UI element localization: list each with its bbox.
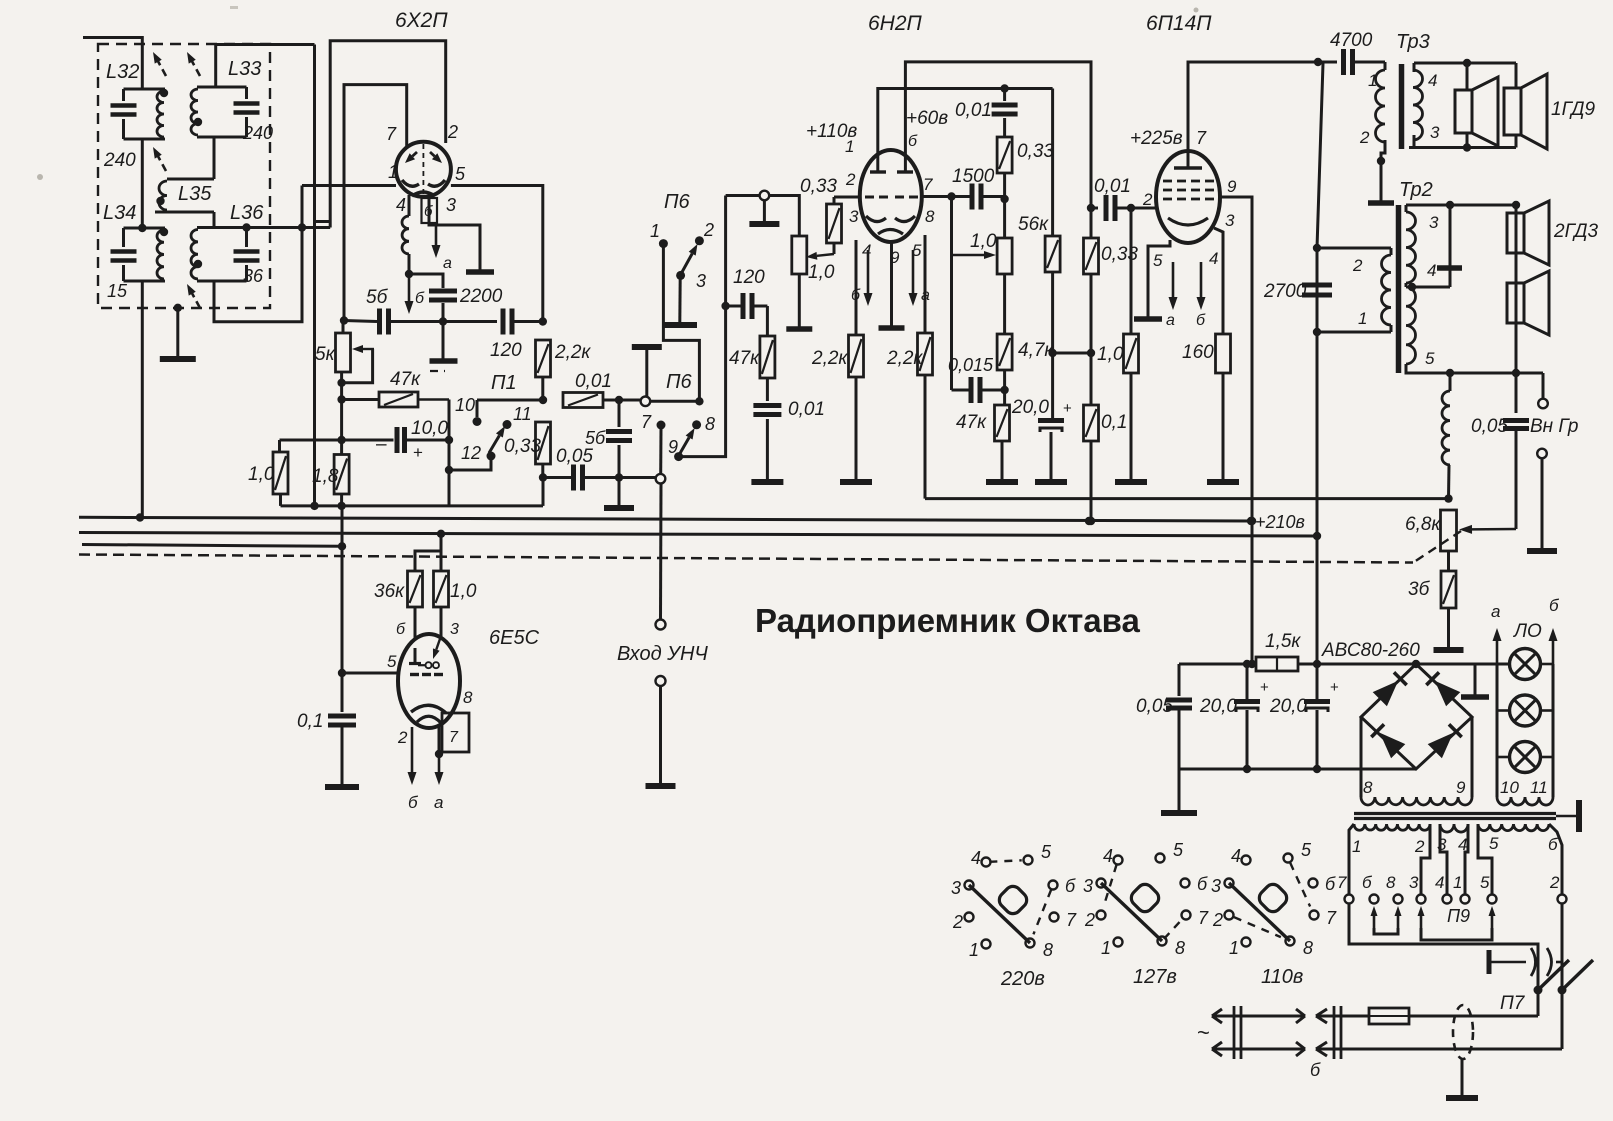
svg-text:б: б bbox=[396, 621, 406, 638]
trimmer arrow L32 bbox=[162, 69, 166, 76]
svg-text:1ГД9: 1ГД9 bbox=[1551, 99, 1595, 120]
wire P6-1 to node bbox=[663, 246, 699, 401]
resistor 1,0 (AVC) bbox=[278, 440, 281, 452]
svg-text:1,0: 1,0 bbox=[1097, 344, 1124, 365]
svg-text:0,015: 0,015 bbox=[948, 355, 994, 375]
wire circle to pot 1,0 bbox=[769, 196, 799, 237]
inductor L36 bbox=[197, 226, 247, 229]
svg-text:8: 8 bbox=[925, 207, 935, 226]
svg-text:2700: 2700 bbox=[1263, 281, 1307, 302]
svg-text:120: 120 bbox=[733, 267, 765, 288]
wire antenna rail down (left vert) bbox=[313, 45, 316, 506]
svg-text:б: б bbox=[1197, 874, 1208, 894]
wire 0,1 column bbox=[341, 506, 344, 712]
svg-text:6Х2П: 6Х2П bbox=[395, 9, 448, 32]
svg-text:3: 3 bbox=[1429, 213, 1439, 232]
svg-text:9: 9 bbox=[668, 437, 678, 457]
svg-text:б: б bbox=[1325, 874, 1336, 894]
svg-text:0,05: 0,05 bbox=[1136, 696, 1173, 717]
svg-text:L35: L35 bbox=[178, 183, 212, 205]
terminal circles bbox=[1345, 895, 1354, 904]
svg-text:11: 11 bbox=[1530, 778, 1548, 797]
svg-text:б: б bbox=[1548, 835, 1559, 854]
svg-text:9: 9 bbox=[1456, 778, 1466, 797]
svg-text:0,05: 0,05 bbox=[556, 446, 593, 467]
wire screen column to PSU bbox=[1316, 536, 1319, 664]
svg-text:7: 7 bbox=[641, 412, 652, 432]
bus heater C bbox=[82, 545, 342, 547]
svg-text:8: 8 bbox=[1386, 873, 1396, 892]
svg-text:2200: 2200 bbox=[459, 286, 503, 307]
svg-text:4: 4 bbox=[396, 195, 406, 215]
svg-text:12: 12 bbox=[461, 443, 481, 463]
jog to 36k and 1,0 bbox=[440, 534, 443, 571]
capacitor 5b (detector) bbox=[344, 321, 377, 322]
svg-text:5: 5 bbox=[1425, 349, 1435, 368]
potentiometer 5k bbox=[342, 321, 345, 334]
wire 6P14P pin3 cathode bbox=[1214, 228, 1223, 334]
svg-text:15: 15 bbox=[107, 281, 128, 301]
svg-text:7: 7 bbox=[1196, 128, 1207, 148]
heater arrow b at 6X2P bbox=[408, 276, 411, 301]
selector 220v bbox=[982, 858, 991, 867]
switch P6 contact 2 bbox=[695, 236, 704, 245]
svg-text:3: 3 bbox=[951, 878, 961, 898]
svg-text:П6: П6 bbox=[666, 371, 692, 393]
svg-text:б: б bbox=[415, 290, 425, 307]
svg-text:3: 3 bbox=[849, 207, 859, 226]
capacitor 120 (volume) bbox=[726, 305, 741, 308]
tap wires bbox=[1349, 824, 1354, 894]
wire bottom AVC rail bbox=[281, 504, 544, 507]
tube V4 internals bbox=[414, 648, 417, 663]
capacitor 20,0 second bbox=[1316, 664, 1319, 699]
wire top-left antenna rail bbox=[83, 38, 142, 90]
svg-text:36к: 36к bbox=[374, 581, 405, 602]
svg-text:0,01: 0,01 bbox=[788, 399, 825, 420]
mains fuse bbox=[1369, 1008, 1409, 1024]
input terminal lower bbox=[656, 676, 666, 686]
svg-text:П1: П1 bbox=[491, 372, 517, 394]
svg-text:220в: 220в bbox=[1000, 968, 1045, 990]
resistor 47k (NFB) bbox=[995, 405, 1010, 441]
tube V3 internals bbox=[1187, 152, 1190, 168]
svg-text:120: 120 bbox=[490, 340, 522, 361]
svg-text:10,0: 10,0 bbox=[411, 418, 448, 439]
speaker 2GD3 second bbox=[1507, 283, 1524, 323]
transformer Tr2 secondary lower bbox=[1406, 287, 1416, 364]
svg-text:5: 5 bbox=[387, 652, 397, 671]
svg-text:1: 1 bbox=[1368, 71, 1377, 90]
capacitor 20,0 first bbox=[1246, 664, 1249, 699]
svg-text:47к: 47к bbox=[729, 348, 760, 369]
svg-text:2: 2 bbox=[1084, 910, 1095, 930]
resistor 1,5k fuse bbox=[1179, 663, 1256, 666]
svg-text:+210в: +210в bbox=[1255, 512, 1305, 532]
svg-text:0,33: 0,33 bbox=[1101, 244, 1138, 265]
svg-text:5б: 5б bbox=[585, 428, 606, 448]
wire 6N2P pin4 cathode bbox=[855, 240, 858, 335]
wire 6X2P pin1 from AGC node bbox=[302, 184, 396, 187]
svg-text:8: 8 bbox=[1303, 938, 1313, 958]
wire 6P14P pin5 to bar bbox=[1148, 240, 1170, 318]
potentiometer 1,0 (volume) bbox=[792, 236, 807, 274]
resistor 36k bbox=[408, 571, 423, 607]
svg-text:1,5к: 1,5к bbox=[1265, 631, 1301, 652]
transformer core bbox=[1354, 812, 1556, 815]
svg-text:3: 3 bbox=[1409, 873, 1419, 892]
paper speck bbox=[37, 174, 43, 180]
svg-text:1: 1 bbox=[1453, 873, 1462, 892]
wire 5k column down bbox=[340, 372, 343, 455]
inductor L32 bbox=[124, 88, 166, 91]
node column 6X2P right bbox=[541, 377, 544, 400]
inductor L34 bbox=[124, 227, 166, 230]
svg-text:a: a bbox=[1491, 602, 1500, 621]
switch P6 contact 1 bbox=[659, 239, 668, 248]
svg-text:3: 3 bbox=[1083, 876, 1093, 896]
svg-text:Радиоприемник Октава: Радиоприемник Октава bbox=[755, 602, 1140, 639]
svg-text:47к: 47к bbox=[956, 412, 987, 433]
wire P6 node bbox=[650, 400, 699, 403]
connector circle (volume) bbox=[760, 191, 770, 201]
svg-text:8: 8 bbox=[1175, 938, 1185, 958]
selector 127v bbox=[1114, 856, 1123, 865]
wire 6P14P pin7 rail bbox=[1188, 62, 1318, 152]
heater arrows 6E5C bbox=[411, 727, 414, 772]
trimmer arrow L36 bbox=[196, 301, 200, 308]
wire P6-7 to input node bbox=[659, 429, 662, 474]
svg-text:6П14П: 6П14П bbox=[1146, 12, 1212, 35]
capacitor 0,05 (PSU) bbox=[1178, 664, 1181, 696]
svg-text:2: 2 bbox=[1212, 910, 1223, 930]
svg-text:a: a bbox=[434, 793, 443, 812]
svg-text:6,8к: 6,8к bbox=[1405, 514, 1441, 535]
svg-text:2: 2 bbox=[1142, 190, 1153, 209]
svg-text:–: – bbox=[376, 434, 387, 455]
selector 110v bbox=[1242, 856, 1251, 865]
switch P1 contact 10 bbox=[476, 400, 479, 417]
ground below 2200 bbox=[442, 322, 445, 361]
svg-text:Вн Гр: Вн Гр bbox=[1530, 416, 1578, 437]
wire 6N2P grid2 line bbox=[921, 195, 952, 198]
svg-text:+: + bbox=[1063, 400, 1072, 417]
svg-text:0,1: 0,1 bbox=[297, 711, 323, 732]
svg-text:6Е5С: 6Е5С bbox=[489, 627, 540, 649]
capacitor 0,1 bbox=[328, 714, 356, 719]
svg-text:+225в: +225в bbox=[1130, 128, 1183, 149]
svg-text:a: a bbox=[443, 255, 452, 272]
tube V1 6X2P bbox=[396, 142, 451, 197]
resistor 1,8 bbox=[334, 455, 349, 495]
svg-text:б: б bbox=[908, 133, 918, 150]
capacitor 2700 bbox=[1302, 283, 1332, 288]
svg-text:7: 7 bbox=[1066, 910, 1077, 930]
svg-text:Вход УНЧ: Вход УНЧ bbox=[617, 643, 708, 665]
svg-text:2: 2 bbox=[703, 220, 714, 240]
svg-text:+: + bbox=[1330, 679, 1339, 696]
switch P1 contact 12 bbox=[487, 452, 496, 461]
hum coil bbox=[1449, 373, 1452, 391]
transformer Tr2 secondary upper bbox=[1405, 205, 1408, 212]
bus +210v bbox=[79, 517, 1251, 521]
wire L34 bottom down to bus bbox=[141, 281, 144, 517]
svg-text:2,2к: 2,2к bbox=[554, 342, 591, 363]
switch P6 contact 9 bbox=[674, 452, 683, 461]
svg-text:4: 4 bbox=[1428, 71, 1437, 90]
chassis stub above P6-7 bbox=[632, 344, 662, 350]
svg-text:8: 8 bbox=[1363, 778, 1373, 797]
wire P6-9 riser bbox=[679, 196, 726, 457]
wire PSU bottom bbox=[1179, 768, 1416, 771]
transformer Tr2 primary bbox=[1318, 247, 1391, 250]
wire L36 top to detector bbox=[247, 226, 331, 229]
switch P1 lever bbox=[489, 435, 499, 453]
svg-text:L36: L36 bbox=[230, 202, 264, 224]
wire P1-10 to node bbox=[477, 399, 543, 402]
transformer HV winding box bbox=[1360, 717, 1363, 797]
inductor L33 bbox=[197, 86, 247, 89]
wire rail to 6X2P pin2 column bbox=[216, 45, 315, 88]
svg-text:2: 2 bbox=[1414, 837, 1425, 856]
wire Tr3 secondary bottom bbox=[1409, 146, 1516, 149]
svg-text:П6: П6 bbox=[664, 191, 690, 213]
svg-text:7: 7 bbox=[1337, 873, 1347, 892]
svg-text:1,8: 1,8 bbox=[312, 466, 339, 487]
resistor 160 bbox=[1216, 334, 1231, 373]
chassis stub below circle bbox=[763, 200, 766, 222]
switch P6 contact 8 bbox=[692, 420, 701, 429]
svg-text:2: 2 bbox=[845, 170, 856, 189]
capacitor 0,01 (to 6P14P grid) bbox=[1091, 207, 1098, 210]
capacitor 4700 bbox=[1318, 61, 1337, 64]
svg-text:8: 8 bbox=[463, 688, 473, 707]
svg-text:1: 1 bbox=[1358, 309, 1367, 328]
resistor 6,8k bbox=[1441, 510, 1457, 551]
wire 6X2P pin6 to ground bbox=[429, 196, 480, 271]
wire Tr3 secondary top bbox=[1414, 62, 1516, 65]
svg-text:7: 7 bbox=[449, 729, 459, 746]
svg-text:36: 36 bbox=[243, 266, 264, 286]
wire Tr2 secondary top bbox=[1406, 204, 1516, 207]
transformer lamp winding box bbox=[1496, 664, 1499, 797]
resistor 2,2k (second triode) bbox=[924, 235, 927, 333]
svg-text:3: 3 bbox=[450, 621, 459, 638]
transformer primary winding left bbox=[1354, 824, 1430, 830]
svg-text:5: 5 bbox=[1173, 840, 1184, 860]
svg-text:4,7к: 4,7к bbox=[1018, 340, 1054, 361]
resistor 3b bbox=[1447, 551, 1450, 571]
svg-text:5: 5 bbox=[1301, 840, 1312, 860]
svg-text:3: 3 bbox=[1225, 211, 1235, 230]
svg-text:47к: 47к bbox=[390, 369, 421, 390]
lamp arrows a b bbox=[1496, 641, 1499, 664]
svg-text:L34: L34 bbox=[103, 202, 136, 224]
svg-text:2: 2 bbox=[952, 912, 963, 932]
resistor 47k (grid) bbox=[766, 306, 769, 336]
tone pot wiper bbox=[950, 197, 953, 391]
switch P6 contact 7 bbox=[657, 421, 666, 430]
pin7 box 6E5C bbox=[442, 713, 469, 752]
input node circle bbox=[656, 474, 666, 484]
svg-text:1: 1 bbox=[388, 162, 398, 182]
wire L32 to L34 bbox=[141, 139, 144, 228]
wire volume top line bbox=[726, 194, 760, 197]
transformer Tr2 core bbox=[1396, 205, 1402, 373]
svg-text:П7: П7 bbox=[1500, 993, 1526, 1014]
svg-text:4: 4 bbox=[1231, 846, 1241, 866]
svg-text:5: 5 bbox=[455, 164, 466, 184]
svg-text:7: 7 bbox=[1198, 908, 1209, 928]
svg-text:ЛО: ЛО bbox=[1512, 621, 1542, 642]
svg-text:2: 2 bbox=[1549, 873, 1560, 892]
heater arrow a at 6X2P bbox=[435, 226, 438, 245]
svg-text:0,01: 0,01 bbox=[575, 371, 612, 392]
capacitor 0,05 (input) bbox=[543, 476, 571, 479]
svg-text:56к: 56к bbox=[1018, 214, 1049, 235]
svg-text:1: 1 bbox=[969, 940, 979, 960]
resistor 0,33 (top) bbox=[997, 137, 1012, 173]
wire 47k to cap column bbox=[448, 400, 451, 506]
capacitor 0,05 (output) bbox=[1503, 418, 1529, 423]
svg-text:3: 3 bbox=[1430, 123, 1440, 142]
bus dashed AGC bbox=[79, 555, 1413, 563]
svg-text:8: 8 bbox=[705, 414, 715, 434]
svg-text:10: 10 bbox=[455, 395, 475, 415]
wire 6X2P pin7 riser bbox=[344, 85, 407, 321]
svg-text:+: + bbox=[1260, 679, 1269, 696]
wire Tr3 primary bottom to chassis bbox=[1381, 148, 1385, 202]
resistor 2,2k (6X2P) bbox=[536, 340, 551, 377]
svg-text:7: 7 bbox=[923, 175, 933, 194]
svg-text:4: 4 bbox=[1435, 873, 1444, 892]
switch P6 contact 3 bbox=[676, 271, 685, 280]
svg-text:0,33: 0,33 bbox=[504, 436, 541, 457]
svg-text:б: б bbox=[408, 793, 419, 812]
wire feedback line bbox=[925, 497, 1449, 500]
svg-text:20,0: 20,0 bbox=[1269, 696, 1307, 717]
heater arrows 6N2P bbox=[867, 250, 870, 293]
svg-text:0,1: 0,1 bbox=[1101, 412, 1127, 433]
mains segment left bbox=[1212, 1015, 1305, 1018]
svg-text:4700: 4700 bbox=[1330, 30, 1373, 51]
5k wiper arm bbox=[363, 348, 374, 350]
svg-text:5: 5 bbox=[1480, 873, 1490, 892]
svg-text:5б: 5б bbox=[366, 287, 389, 308]
terminal jumpers with arrows bbox=[1373, 916, 1376, 930]
svg-text:7: 7 bbox=[1326, 908, 1337, 928]
svg-text:20,0: 20,0 bbox=[1199, 696, 1237, 717]
spark capacitor at P7 bbox=[1487, 950, 1492, 974]
svg-text:б: б bbox=[1310, 1060, 1321, 1080]
wire P6-3 stub to bar bbox=[678, 277, 681, 324]
wire 6E5C grid bbox=[342, 672, 399, 675]
svg-text:0,05: 0,05 bbox=[1471, 416, 1508, 437]
svg-text:2: 2 bbox=[397, 728, 408, 747]
svg-text:1: 1 bbox=[1101, 938, 1111, 958]
wire 0,33 to pot wiper bbox=[833, 243, 836, 254]
svg-text:1: 1 bbox=[1229, 938, 1239, 958]
svg-text:+60в: +60в bbox=[906, 108, 948, 129]
svg-text:1: 1 bbox=[650, 221, 660, 241]
resistor 4,7k bbox=[1003, 274, 1006, 334]
mains plug oval bbox=[1453, 1005, 1473, 1059]
tap 4 bar bbox=[1449, 205, 1452, 287]
resistor 0,33 (P1) bbox=[536, 422, 551, 464]
capacitor 5b (to ground) bbox=[618, 400, 621, 427]
svg-text:3: 3 bbox=[1211, 876, 1221, 896]
svg-text:10: 10 bbox=[1500, 778, 1519, 797]
input terminal upper bbox=[656, 620, 666, 630]
trimmer arrow L33 bbox=[196, 69, 200, 76]
capacitor 0,01 (grid) bbox=[766, 378, 769, 401]
coil box dashed outline bbox=[98, 44, 270, 308]
capacitor 0,01 (top) bbox=[1003, 89, 1006, 102]
svg-text:2ГД3: 2ГД3 bbox=[1553, 221, 1598, 242]
transformer primary winding right bbox=[1478, 824, 1549, 831]
svg-text:110в: 110в bbox=[1261, 966, 1303, 988]
svg-text:240: 240 bbox=[242, 123, 273, 143]
transformer primary winding middle bbox=[1440, 824, 1468, 832]
svg-text:1,0: 1,0 bbox=[970, 231, 997, 252]
svg-text:5: 5 bbox=[1489, 834, 1499, 853]
wire grid line 6N2P bbox=[834, 196, 861, 199]
resistor 0,01 horizontal bbox=[563, 393, 603, 408]
svg-text:2,2к: 2,2к bbox=[811, 348, 848, 369]
svg-text:2: 2 bbox=[1359, 128, 1370, 147]
svg-text:0,33: 0,33 bbox=[1017, 141, 1054, 162]
ground below coil box bbox=[176, 308, 179, 359]
wire input line bbox=[659, 484, 663, 620]
svg-text:11: 11 bbox=[513, 404, 532, 424]
speaker 2GD3 first bbox=[1507, 213, 1524, 253]
svg-text:б: б bbox=[1196, 312, 1206, 329]
svg-text:4: 4 bbox=[1103, 846, 1113, 866]
tube V2 6N2P bbox=[860, 150, 922, 242]
svg-text:7: 7 bbox=[386, 124, 397, 144]
mains ground bbox=[1461, 1059, 1464, 1096]
svg-text:L33: L33 bbox=[228, 58, 261, 80]
wire 6X2P pin2 riser bbox=[330, 41, 446, 228]
svg-text:9: 9 bbox=[1227, 177, 1237, 196]
trimmer arrow L35 bbox=[162, 164, 166, 171]
resistor 56k bbox=[1051, 89, 1054, 237]
heater arrows 6P14P bbox=[1172, 262, 1175, 297]
tube V4 6E5C bbox=[398, 634, 460, 728]
wire primary common bbox=[1349, 904, 1538, 987]
rectifier bridge bbox=[1361, 664, 1472, 769]
svg-text:б: б bbox=[1065, 876, 1076, 896]
transformer Tr3 core bbox=[1399, 64, 1405, 149]
wire 6N2P pin9 to bar bbox=[890, 241, 893, 326]
wire speakers column bbox=[1515, 205, 1518, 413]
wire 6P14P pin9 screen bbox=[1220, 197, 1252, 664]
6,8k wiper dashes bbox=[1414, 531, 1461, 562]
wire 56k to 0,1 column bbox=[1053, 352, 1091, 355]
wire bridge to lamps bbox=[1416, 663, 1508, 666]
svg-text:~: ~ bbox=[1197, 1020, 1210, 1045]
bus heater B bbox=[79, 533, 1317, 537]
svg-text:1,0: 1,0 bbox=[808, 262, 835, 283]
svg-text:5к: 5к bbox=[315, 344, 336, 365]
svg-text:+110в: +110в bbox=[806, 121, 857, 142]
resistor 0,1 bbox=[1084, 405, 1099, 441]
svg-text:3: 3 bbox=[446, 195, 456, 215]
wire L33 bottom to L35 bbox=[213, 137, 216, 179]
capacitor 0,015 bbox=[969, 377, 974, 403]
switch P6 lever 9-8 bbox=[680, 438, 690, 454]
svg-text:3б: 3б bbox=[1408, 579, 1431, 600]
